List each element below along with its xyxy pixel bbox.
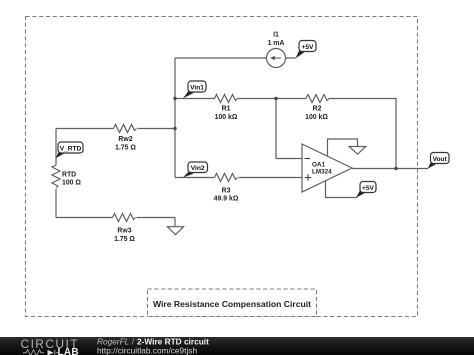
svg-text:R3: R3 (222, 188, 231, 195)
svg-text:LM324: LM324 (312, 169, 332, 176)
svg-text:Wire Resistance Compensation C: Wire Resistance Compensation Circuit (153, 299, 311, 309)
svg-text:Vout: Vout (433, 156, 448, 163)
svg-text:+5V: +5V (362, 185, 375, 192)
svg-text:Rw2: Rw2 (118, 136, 132, 143)
svg-text:R1: R1 (222, 106, 231, 113)
svg-text:LAB: LAB (58, 347, 79, 355)
svg-text:100 kΩ: 100 kΩ (305, 114, 328, 121)
svg-text:1.75 Ω: 1.75 Ω (115, 145, 136, 152)
svg-text:Rw3: Rw3 (117, 228, 131, 235)
svg-text:I1: I1 (273, 32, 279, 39)
svg-text:1 mA: 1 mA (268, 40, 285, 47)
svg-text:1.75 Ω: 1.75 Ω (114, 236, 135, 243)
svg-text:RTD: RTD (62, 172, 76, 179)
svg-text:Vin2: Vin2 (191, 165, 205, 172)
svg-text:100 kΩ: 100 kΩ (215, 114, 238, 121)
svg-text:V_RTD: V_RTD (60, 145, 82, 152)
svg-text:49.9 kΩ: 49.9 kΩ (214, 196, 239, 203)
svg-text:+5V: +5V (302, 44, 315, 51)
svg-text:Vin1: Vin1 (190, 84, 204, 91)
svg-text:http://circuitlab.com/ce9tjsh: http://circuitlab.com/ce9tjsh (97, 345, 197, 355)
svg-text:R2: R2 (313, 106, 322, 113)
svg-text:100 Ω: 100 Ω (62, 180, 81, 187)
svg-text:OA1: OA1 (312, 162, 325, 169)
